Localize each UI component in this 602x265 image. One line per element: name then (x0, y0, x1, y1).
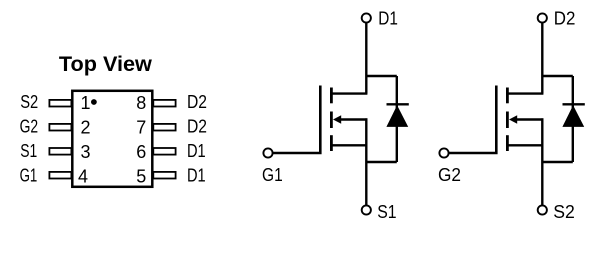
wire diode bottom branch (366, 161, 397, 163)
pin 2 (49, 124, 71, 131)
terminal S2 circle (538, 205, 547, 214)
diode anode triangle (562, 105, 584, 127)
terminal S1 circle (362, 205, 371, 214)
svg-text:S1: S1 (20, 141, 37, 161)
wire diode top branch (542, 75, 573, 77)
diode body-diode vertical (572, 76, 574, 162)
pin 1 (49, 100, 71, 107)
svg-text:3: 3 (80, 142, 90, 162)
wire body connection (516, 118, 544, 120)
svg-text:G1: G1 (262, 165, 283, 185)
pin 8 (153, 100, 175, 107)
svg-text:Top View: Top View (59, 53, 153, 76)
pin 7 (153, 124, 175, 131)
wire source stub (508, 144, 542, 146)
diode body-diode vertical (396, 76, 398, 162)
svg-text:2: 2 (80, 117, 90, 137)
pin 5 (153, 172, 175, 179)
wire drain D2 (508, 23, 543, 94)
svg-text:D2: D2 (187, 92, 207, 112)
svg-text:G2: G2 (20, 117, 38, 137)
svg-text:S1: S1 (377, 202, 396, 222)
transistor Q1 (263, 13, 408, 214)
wire source S1 (365, 118, 367, 205)
wire source S2 (541, 118, 543, 205)
svg-text:4: 4 (78, 166, 88, 186)
svg-text:D1: D1 (187, 141, 206, 161)
terminal G2 circle (439, 148, 448, 157)
svg-text:8: 8 (136, 93, 146, 113)
wire diode top branch (366, 75, 397, 77)
transistor Q2 (439, 13, 584, 214)
Q1 channel source segment (330, 135, 333, 151)
terminal D2 circle (538, 13, 547, 22)
Q1 body arrow (333, 115, 341, 124)
terminal G1 circle (263, 148, 272, 157)
svg-text:7: 7 (136, 117, 146, 137)
diode cathode bar (563, 103, 585, 105)
Q2 channel drain segment (506, 88, 509, 104)
wire gate lead G2 (449, 86, 497, 154)
Q2 body arrow (509, 115, 517, 124)
Q2 channel body segment (506, 112, 509, 129)
pin 3 (49, 148, 71, 155)
wire gate lead G1 (273, 86, 321, 154)
wire drain D1 (332, 23, 367, 94)
svg-text:D1: D1 (378, 9, 398, 29)
pin 6 (153, 148, 175, 155)
svg-text:1: 1 (80, 93, 90, 113)
svg-text:5: 5 (136, 166, 146, 186)
wire source stub (332, 144, 366, 146)
Q1 channel body segment (330, 112, 333, 129)
svg-text:D2: D2 (554, 9, 576, 29)
package U1 body (72, 91, 152, 187)
svg-text:D1: D1 (187, 166, 206, 186)
wire diode bottom branch (542, 161, 573, 163)
Q2 channel source segment (506, 135, 509, 151)
terminal D1 circle (362, 13, 371, 22)
diode cathode bar (387, 103, 409, 105)
svg-text:S2: S2 (553, 202, 575, 222)
pin 1 indicator dot (91, 99, 97, 105)
wire body connection (340, 118, 368, 120)
diode anode triangle (386, 105, 408, 127)
svg-text:6: 6 (136, 142, 146, 162)
Q1 channel drain segment (330, 88, 333, 104)
svg-text:G2: G2 (438, 165, 461, 185)
svg-text:D2: D2 (187, 117, 207, 137)
svg-text:G1: G1 (20, 166, 38, 186)
svg-text:S2: S2 (20, 92, 38, 112)
pin 4 (49, 172, 71, 179)
